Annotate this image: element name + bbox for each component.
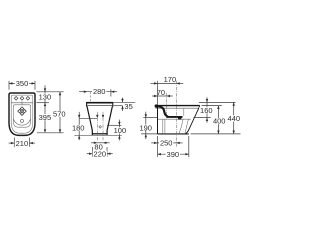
dimension 160 line [206,97,208,102]
dimension 130/395 line [44,85,46,131]
plan view: small overflow circle [21,119,24,122]
svg-text:250: 250 [160,139,173,148]
front view: body left side [87,106,92,135]
dimension 250 extension line [157,136,159,157]
svg-text:170: 170 [164,75,177,84]
dimension 350 extension lines [8,81,10,90]
extension line inlet ledge right [194,117,211,119]
dimension 400 text [212,118,226,124]
dimension 400 line [217,106,219,134]
side view: inlet elbow block (black) [178,117,181,120]
plan view: tap hole diamond left [14,97,18,101]
dimension 35 extension lines [114,101,136,103]
plan view: tap deck line with centre tick [11,102,32,104]
front view: fixing hole centre line left [96,112,98,141]
front view: rim side edges [86,102,88,107]
svg-text:440: 440 [228,114,241,123]
svg-text:35: 35 [124,102,132,111]
dimension 100 text [113,127,127,133]
plan view: inner rim outline [11,95,33,133]
front view: small drain diamond [99,126,102,129]
svg-text:210: 210 [16,139,29,148]
dimension 220 line and arrows [87,153,93,155]
side view: trap curve front [179,119,183,133]
dimension 280 extension line right [110,89,112,96]
dimension 180 line [78,112,80,118]
svg-text:100: 100 [114,126,127,135]
front view: base line [92,133,107,135]
svg-text:570: 570 [53,110,66,119]
dimension 190 line [145,112,147,118]
svg-text:160: 160 [200,106,213,115]
dimension 350 text [15,80,29,86]
dimension 170 extension line [157,81,159,105]
dimension 190 text [139,125,153,131]
dimension 280 line and arrows [79,91,87,93]
side view: bowl rear wall [183,109,185,116]
extension line tap deck (130/395) [36,102,49,104]
dimension 570 text [52,111,66,117]
side view: inlet spout section (black) [158,106,168,117]
dimension 440 text [227,115,241,121]
svg-text:350: 350 [16,79,29,88]
extension line top edge (130/570) [36,91,63,93]
svg-text:180: 180 [72,124,85,133]
front view: floor line [74,134,121,136]
dimension 280 extension line left (dashed tap centre) [89,92,91,102]
side view: rim top line [155,105,200,107]
dimension 210 extension lines [13,138,15,147]
dimension 390 extension line [188,136,190,157]
dimension 250 line and arrows [151,142,157,144]
front view: body right side [107,106,112,135]
front view: right skirt step line [107,124,121,126]
dimension 180 text [71,125,85,131]
dimension 570 line [59,92,61,133]
dimension 280 text [92,88,106,94]
dimension 350 line and arrows [9,82,35,84]
dimension 395 text [38,114,52,120]
side view: rear face vertical [157,106,159,134]
extension line tap top level [199,101,236,103]
front view: fixing datum line [79,117,97,119]
front view: fixing hole arrows [96,115,98,118]
dimension 70 line and arrows [152,95,158,97]
front view: rim top edge [87,102,113,104]
plan view: tap hole diamond centre [20,97,24,101]
extension line floor right [191,133,241,135]
dimension 100 line [118,120,120,126]
dimension 210 text [15,140,29,146]
svg-text:130: 130 [39,92,52,101]
svg-text:400: 400 [213,117,226,126]
dimension 160 text [199,107,213,113]
dimension 130 text [38,94,52,100]
side view: tap knob (black) [155,104,158,107]
side view: floor base line [158,133,189,135]
dimension 440 line [233,102,235,133]
side view: front profile slant [185,106,200,134]
side view: bowl shelf line [158,118,191,120]
plan view: drain cross rosette [20,107,23,110]
dimension 250 text [159,140,173,146]
svg-text:280: 280 [93,87,106,96]
extension line inlet ledge left [143,117,157,119]
svg-text:395: 395 [39,113,52,122]
dimension 220 extension lines [91,147,93,157]
side view: tap centre line [166,93,168,118]
dimension 80 line and arrows [91,142,97,144]
side view: drain centre line [175,81,177,147]
front view: fixing hole centre line right [102,112,104,141]
svg-text:190: 190 [139,123,152,132]
plan view: inner bowl outline [13,105,30,127]
dimension 220 text [93,151,107,157]
dimension 170 line and arrows [151,82,158,84]
side view: rim under line [156,107,200,109]
front view: rim under line [87,105,112,107]
svg-text:70: 70 [157,88,165,97]
extension line rim seat right [202,105,222,107]
dimension 210 line and arrows [9,142,15,144]
extension line bottom edge (395/570) [37,132,64,134]
extension line floor left [141,133,157,135]
plan view: bowl water line [13,119,30,125]
svg-text:220: 220 [94,149,107,158]
dimension 35 line and arrows [122,98,124,103]
side view: inlet ledge bar (black) [166,116,182,118]
plan view: tap hole diamond right [26,97,30,101]
svg-text:390: 390 [167,150,180,159]
plan view: bidet outer body outline [9,93,35,135]
dimension 390 line and arrows [158,153,189,155]
side view: drain pipe verticals [162,119,164,134]
dimension 390 text [166,151,180,157]
side view: trap curve rear [185,119,189,133]
